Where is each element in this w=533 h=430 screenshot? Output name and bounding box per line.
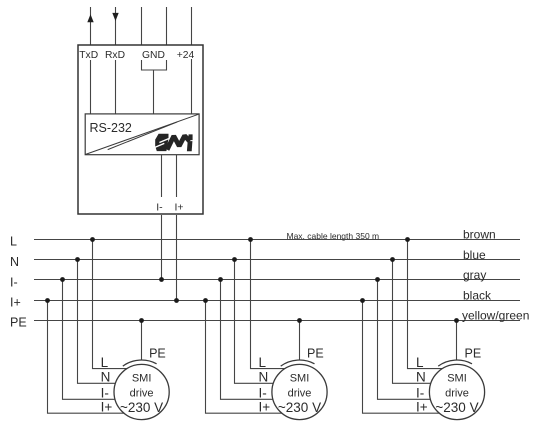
wire PE drop drive 1: [141, 321, 143, 361]
junction dot I- drive 3: [375, 277, 380, 282]
svg-text:L: L: [101, 355, 109, 370]
svg-text:TxD: TxD: [79, 50, 98, 61]
logo letter I bottom: [187, 141, 193, 151]
bus wire L (brown): [34, 239, 520, 241]
logo SMI: [155, 134, 168, 151]
wire L drop drive 3: [408, 240, 458, 369]
junction dot PE drive 3: [454, 318, 459, 323]
bus wire N (blue): [34, 259, 520, 261]
wire RxD terminal line: [115, 7, 117, 45]
wire I+ drop from module: [176, 155, 178, 197]
svg-text:I-: I-: [156, 201, 163, 213]
svg-text:I+: I+: [101, 400, 113, 415]
wire N drop drive 1: [78, 260, 142, 384]
svg-text:~230 V: ~230 V: [278, 400, 321, 415]
svg-text:I+: I+: [10, 296, 21, 310]
svg-text:SMI: SMI: [447, 372, 467, 384]
junction dot I+ drive 3: [360, 298, 365, 303]
wire GND center drop: [153, 70, 155, 114]
wire I- drop from module: [161, 155, 163, 197]
svg-text:PE: PE: [307, 347, 324, 361]
interface module box: [78, 45, 203, 214]
wire L drop drive 2: [251, 240, 300, 369]
wire RxD inside box: [115, 60, 117, 114]
wire I+ drop drive 3: [363, 301, 458, 414]
svg-text:yellow/green: yellow/green: [462, 309, 529, 323]
junction dot L drive 2: [248, 237, 253, 242]
svg-text:PE: PE: [10, 316, 27, 330]
SMI drive motor M3: [429, 364, 484, 419]
wire L drop drive 1: [93, 240, 142, 369]
SMI drive motor M2: [272, 364, 327, 419]
junction dot PE drive 2: [297, 318, 302, 323]
wire I+ drop drive 1: [48, 301, 142, 414]
svg-text:SMI: SMI: [290, 372, 310, 384]
svg-text:black: black: [463, 288, 492, 302]
wire +24 terminal line: [191, 7, 193, 45]
wire PE drop drive 2: [299, 321, 301, 361]
wire TxD terminal line: [90, 7, 92, 45]
svg-text:I+: I+: [175, 201, 184, 213]
svg-text:I-: I-: [101, 386, 109, 401]
wire N drop drive 2: [235, 260, 300, 384]
svg-text:drive: drive: [288, 387, 312, 399]
logo letter S slit 2: [154, 143, 165, 148]
svg-text:I-: I-: [259, 386, 267, 401]
wire GND terminal line 1: [141, 7, 143, 45]
svg-text:N: N: [416, 370, 426, 385]
wire I- drop drive 1: [63, 280, 142, 400]
svg-text:PE: PE: [149, 347, 166, 361]
junction dot I- drive 1: [60, 277, 65, 282]
wire TxD inside box: [90, 60, 92, 114]
svg-text:gray: gray: [463, 268, 486, 282]
bus wire I+ (black): [34, 300, 520, 302]
svg-text:blue: blue: [463, 248, 486, 262]
SMI drive motor M1: [114, 364, 169, 419]
PE arc drive 3: [438, 360, 472, 366]
wire I+ from box to bus: [176, 215, 178, 301]
svg-text:RS-232: RS-232: [90, 121, 132, 135]
svg-text:N: N: [10, 255, 19, 269]
wire +24 inside box: [191, 59, 193, 114]
svg-text:N: N: [259, 370, 269, 385]
wire I- drop drive 2: [221, 280, 300, 400]
svg-text:SMI: SMI: [132, 372, 152, 384]
logo letter I top: [188, 134, 193, 140]
svg-text:~230 V: ~230 V: [120, 400, 163, 415]
junction dot L drive 3: [405, 237, 410, 242]
bus wire PE (yellow/green): [34, 320, 520, 322]
RS-232 module diagonal separator: [86, 114, 199, 154]
svg-text:drive: drive: [130, 387, 154, 399]
svg-text:L: L: [416, 355, 424, 370]
junction dot PE drive 1: [139, 318, 144, 323]
junction dot N drive 2: [232, 257, 237, 262]
svg-text:I+: I+: [259, 400, 271, 415]
junction dot I+ drive 1: [45, 298, 50, 303]
svg-text:RxD: RxD: [105, 50, 125, 61]
logo letter S slit 1: [159, 138, 170, 142]
svg-text:~230 V: ~230 V: [435, 400, 478, 415]
junction dot L drive 1: [90, 237, 95, 242]
logo letter S: [155, 134, 168, 151]
junction dot I+ drive 2: [203, 298, 208, 303]
wire I+ drop drive 2: [206, 301, 300, 414]
junction dot I- from module: [159, 277, 164, 282]
svg-text:I-: I-: [416, 386, 424, 401]
PE arc drive 1: [123, 360, 157, 366]
arrow TxD output (up): [87, 14, 93, 22]
svg-text:PE: PE: [465, 347, 482, 361]
wire I- drop drive 3: [378, 280, 458, 400]
junction dot I+ from module: [174, 298, 179, 303]
wire I- from box to bus: [161, 215, 163, 280]
svg-text:GND: GND: [142, 50, 165, 61]
svg-text:N: N: [101, 370, 111, 385]
svg-text:I-: I-: [10, 275, 18, 289]
wire PE drop drive 3: [456, 321, 458, 361]
wire GND terminal line 2: [166, 7, 168, 45]
svg-text:drive: drive: [445, 387, 469, 399]
svg-text:L: L: [10, 235, 17, 249]
RS-232 module second diagonal: [108, 122, 178, 150]
logo letter M: [167, 136, 190, 150]
junction dot N drive 1: [75, 257, 80, 262]
svg-text:L: L: [259, 355, 267, 370]
wire GND bracket: [142, 60, 167, 70]
junction dot I- drive 2: [218, 277, 223, 282]
arrow RxD input (down): [112, 13, 118, 21]
svg-text:I+: I+: [416, 400, 428, 415]
PE arc drive 2: [281, 360, 315, 366]
bus wire I- (gray): [34, 279, 520, 281]
junction dot N drive 3: [390, 257, 395, 262]
svg-text:brown: brown: [463, 227, 496, 241]
wire N drop drive 3: [393, 260, 458, 384]
RS-232 module U1: [85, 114, 199, 155]
